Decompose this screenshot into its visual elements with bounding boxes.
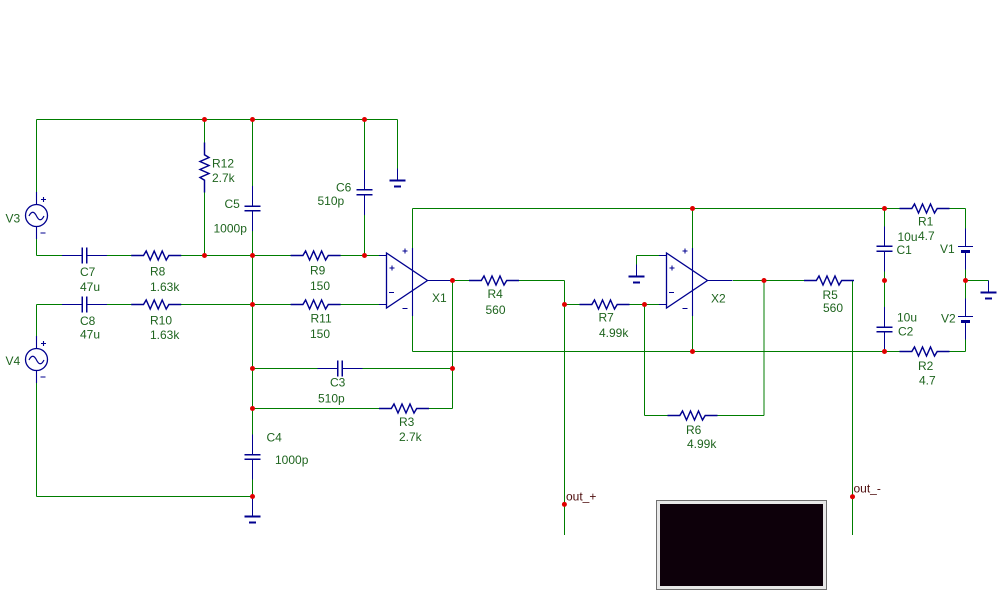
svg-text:10u: 10u [897,311,917,325]
junction [690,349,695,354]
wire X2 Vminus pin [692,316,694,352]
junction [882,278,887,283]
junction [202,253,207,258]
wire row304 R10-R11 [169,304,303,306]
wire X2 Vplus pin [692,209,694,249]
wire gnd drop x=397 [397,120,399,171]
wire right gnd drop [988,281,990,285]
wire row304 R11-X1 [328,304,386,306]
wire right gnd horiz [966,280,989,282]
wire C5 column top [252,120,254,207]
svg-text:2.7k: 2.7k [399,430,423,444]
wire out_+ column [564,281,566,536]
wire row280 X1out-R4 [453,280,482,282]
junction [963,278,968,283]
svg-text:R11: R11 [311,312,332,326]
wire V1V2 column c [965,322,967,352]
junction [882,349,887,354]
svg-text:out_-: out_- [854,482,881,496]
resistor R3 [379,404,429,413]
svg-text:C3: C3 [330,376,346,390]
svg-text:out_+: out_+ [566,490,596,504]
wire C1C2 column a [884,209,886,247]
svg-text:C6: C6 [336,181,352,195]
resistor R11 [291,300,341,309]
wire row255 R9-X1 [328,255,386,257]
wire row304 corner-R7 [565,304,592,306]
wire row255 V3-C7 [37,255,83,257]
svg-text:R12: R12 [212,157,234,171]
capacitor C6 [357,170,373,215]
wire X1 Vminus pin [412,316,414,352]
wire X1 Vplus pin [412,209,414,249]
svg-text:560: 560 [823,301,843,315]
junction [202,117,207,122]
capacitor C8 [62,297,107,313]
resistor R10 [131,300,181,309]
junction [250,302,255,307]
wire x253 mid column [252,256,254,455]
svg-text:V4: V4 [6,354,21,368]
svg-text:R7: R7 [599,311,615,325]
svg-text:510p: 510p [318,194,345,208]
svg-text:C1: C1 [897,243,913,257]
svg-text:R2: R2 [918,359,934,373]
svg-text:1.63k: 1.63k [150,280,180,294]
wire row280 X2out [733,280,816,282]
svg-text:C4: C4 [267,431,283,445]
resistor R6 [668,411,718,420]
junction [762,278,767,283]
capacitor C7 [62,248,107,264]
wire row368 C3 left [253,368,338,370]
ground X2 input [629,265,645,283]
resistor R2 [900,347,950,356]
svg-text:X1: X1 [432,291,447,305]
wire bottom row497 [37,496,253,498]
wire row415 R6 left [645,415,680,417]
wire C6 column bottom [364,195,366,256]
svg-text:150: 150 [310,327,330,341]
wire C6 column top [364,120,366,191]
junction [690,206,695,211]
wire row304 V4-C8 [37,304,83,306]
resistor R1 [900,204,950,213]
junction [250,117,255,122]
battery V2 [958,299,973,340]
junction [250,253,255,258]
wire row408 R3 right [417,408,453,410]
svg-text:47u: 47u [80,328,100,342]
svg-text:R6: R6 [686,423,702,437]
ground right [981,281,997,299]
svg-text:R5: R5 [823,288,839,302]
wire row304 R7-X2 [617,304,667,306]
wire V4 column [36,305,38,497]
battery V1 [958,229,973,270]
svg-text:C2: C2 [898,325,914,339]
wire row351 R2 right [937,351,965,353]
wire row368 C3 right [342,368,452,370]
wire row208 R1 left [885,208,912,210]
wire row351 R2 left [885,351,912,353]
node out_- marker [850,494,855,499]
svg-text:1.63k: 1.63k [150,328,180,342]
svg-text:1000p: 1000p [214,222,248,236]
svg-text:10u: 10u [898,230,918,244]
capacitor C4 [245,434,261,479]
wire x253 low column [252,459,254,496]
junction [562,302,567,307]
svg-text:X2: X2 [711,292,726,306]
resistor R5 [804,276,854,285]
svg-text:R1: R1 [918,215,934,229]
svg-text:C8: C8 [80,314,96,328]
junction [250,366,255,371]
resistor R9 [291,251,341,260]
junction [250,406,255,411]
svg-text:560: 560 [486,303,506,317]
wire C1C2 column b [884,251,886,327]
wire row415 R6 right [705,415,764,417]
resistor R7 [580,300,630,309]
resistor R8 [131,251,181,260]
wire row280 R4-corner [507,280,565,282]
wire C4-gnd stub [252,497,254,505]
junction [450,366,455,371]
node out_+ marker [562,502,567,507]
wire row304 C8-R10 [87,304,144,306]
svg-text:4.99k: 4.99k [599,326,629,340]
capacitor C2 [877,307,893,352]
junction [362,253,367,258]
svg-text:C5: C5 [225,197,241,211]
junction [642,302,647,307]
wire row408 R3 left [253,408,392,410]
svg-text:4.99k: 4.99k [687,437,717,451]
wire x452 column [452,281,454,409]
svg-text:V1: V1 [940,242,955,256]
svg-text:4.7: 4.7 [918,229,935,243]
wire C1C2 column c [884,332,886,352]
capacitor C3 [318,361,363,377]
wire x764 column [763,281,765,416]
svg-text:R3: R3 [399,415,415,429]
junction [362,117,367,122]
wire x645 column [644,305,646,416]
wire row255 R8-R9 [169,255,303,257]
svg-text:510p: 510p [318,392,345,406]
wire X2 gnd horiz [637,255,668,257]
resistor R12 [200,143,209,193]
svg-text:4.7: 4.7 [919,374,936,388]
wire V3 column [36,120,38,256]
resistor R4 [469,276,519,285]
wire top rail y=119 [37,119,398,121]
wire V1V2 column a [965,209,967,247]
wire V1V2 column b [965,252,967,317]
op-amp X1 [379,248,453,316]
wire low rail y=351 [413,351,885,353]
plot window [656,500,827,590]
svg-text:R4: R4 [488,287,504,301]
voltage source V3 [26,192,48,239]
wire row255 C7-R8 [87,255,144,257]
svg-text:V2: V2 [941,312,956,326]
svg-text:R10: R10 [150,314,172,328]
svg-text:V3: V3 [6,212,21,226]
svg-text:1000p: 1000p [275,453,309,467]
svg-text:R8: R8 [150,265,166,279]
junction [450,278,455,283]
wire R12 column top [204,120,206,144]
wire out_- column [852,281,854,536]
wire mid rail y=208 [413,208,885,210]
svg-text:C7: C7 [80,265,96,279]
op-amp X2 [659,248,733,316]
voltage source V4 [26,336,48,383]
svg-text:R9: R9 [310,264,326,278]
wire X2 gnd drop [636,256,638,267]
ground top [390,169,406,187]
svg-text:150: 150 [310,279,330,293]
ground C4 [245,505,261,523]
wire C5 column bottom [252,211,254,256]
junction [250,494,255,499]
svg-text:47u: 47u [80,280,100,294]
capacitor C5 [245,186,261,231]
capacitor C1 [877,226,893,271]
wire row208 R1 right [937,208,965,210]
svg-text:2.7k: 2.7k [212,171,236,185]
wire R12 column bottom [204,193,206,256]
junction [882,206,887,211]
